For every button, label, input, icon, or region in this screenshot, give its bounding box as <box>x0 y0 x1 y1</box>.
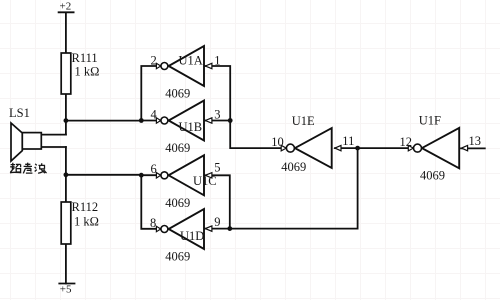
inverter U1C <box>169 155 204 195</box>
svg-text:4069: 4069 <box>165 141 190 155</box>
svg-text:13: 13 <box>469 134 482 148</box>
U1A input arrow pin1 <box>205 63 212 68</box>
junction dot U1E pin11 <box>355 146 360 151</box>
inverter U1E <box>295 128 332 168</box>
U1D output bubble pin8 <box>161 226 168 233</box>
svg-text:9: 9 <box>214 215 220 229</box>
svg-text:U1D: U1D <box>180 229 204 243</box>
node B junction dot <box>64 172 69 177</box>
wire speaker bottom terminal <box>41 146 66 148</box>
svg-text:U1B: U1B <box>179 120 203 134</box>
wire U1A pin1 to U1E pin10 <box>205 66 287 148</box>
svg-text:8: 8 <box>150 216 156 230</box>
svg-text:4069: 4069 <box>165 250 190 264</box>
U1E input arrow pin11 <box>335 145 341 150</box>
U1F output arrow <box>408 145 413 151</box>
svg-text:+5: +5 <box>60 284 72 296</box>
U1E output bubble pin10 <box>286 144 294 152</box>
svg-text:R112: R112 <box>72 200 99 214</box>
U1B output arrow <box>156 118 160 123</box>
inverter U1B <box>169 101 204 141</box>
U1C input arrow pin5 <box>205 173 212 178</box>
svg-text:2: 2 <box>151 53 157 67</box>
svg-text:+2: +2 <box>60 1 72 13</box>
U1C output arrow <box>156 173 160 178</box>
svg-text:4: 4 <box>151 108 158 122</box>
label 超声波 (ultrasonic) drawn strokes <box>10 163 47 174</box>
U1F output bubble pin12 <box>414 144 422 152</box>
resistor R112 <box>61 202 71 244</box>
svg-text:4069: 4069 <box>420 169 445 183</box>
wire U1B pin3 <box>205 120 230 122</box>
wire right vertical to U1E/U1F node <box>357 148 359 229</box>
svg-text:U1F: U1F <box>419 114 441 128</box>
svg-text:4069: 4069 <box>165 196 190 210</box>
U1A output arrow <box>156 63 160 68</box>
U1D input arrow pin9 <box>205 226 212 231</box>
power terminal +5 bar <box>59 283 74 285</box>
svg-text:12: 12 <box>400 135 413 149</box>
svg-text:U1E: U1E <box>292 114 315 128</box>
wire node A to U1B output node <box>66 120 141 122</box>
svg-text:3: 3 <box>214 108 220 122</box>
svg-text:R111: R111 <box>72 51 98 65</box>
svg-text:4069: 4069 <box>165 87 190 101</box>
U1D output arrow <box>156 226 160 231</box>
U1B input arrow pin3 <box>205 118 212 123</box>
wire +2 to R111 <box>65 13 67 53</box>
wire U1E pin11 to U1F pin12 <box>335 147 413 149</box>
wire U1F pin13 <box>461 147 485 149</box>
wire node B to U1C output node <box>66 174 141 176</box>
U1A output bubble pin2 <box>161 63 168 70</box>
junction dot U1D pin9 <box>227 226 232 231</box>
wire U1C pin6 vertical to U1D pin8 <box>141 175 160 229</box>
svg-text:10: 10 <box>271 135 284 149</box>
svg-text:11: 11 <box>342 134 354 148</box>
U1F input arrow pin13 <box>462 145 468 150</box>
svg-text:U1A: U1A <box>179 53 203 67</box>
wire U1A pin2 to vertical <box>141 66 160 121</box>
wire speaker bottom to node B to R112 <box>65 147 67 202</box>
svg-text:LS1: LS1 <box>9 106 30 120</box>
power terminal +2 bar <box>59 11 74 13</box>
U1E output arrow <box>281 145 286 151</box>
wire R112 to +5 <box>65 244 67 284</box>
inverter U1F <box>422 128 459 168</box>
svg-text:4069: 4069 <box>281 160 306 174</box>
U1B output bubble pin4 <box>161 117 168 124</box>
wire U1B pin4 stub <box>141 120 160 122</box>
svg-text:6: 6 <box>151 162 157 176</box>
inverter U1D <box>169 209 204 249</box>
speaker LS1 symbol <box>11 123 41 161</box>
wire U1D pin9 to right vertical <box>205 228 358 230</box>
svg-text:1 kΩ: 1 kΩ <box>74 214 99 228</box>
svg-text:U1C: U1C <box>193 174 217 188</box>
U1C output bubble pin6 <box>161 172 168 179</box>
wire R111 to node A to speaker top <box>65 94 67 135</box>
junction dot U1B pin3 <box>228 118 233 123</box>
junction dot U1C/U1D outputs <box>139 173 144 178</box>
node A junction dot <box>64 118 69 123</box>
svg-text:5: 5 <box>214 160 220 174</box>
inverter U1A <box>169 46 204 86</box>
wire speaker top terminal <box>41 134 66 136</box>
svg-text:1 kΩ: 1 kΩ <box>75 65 100 79</box>
wire U1C pin5 down to pin9 row <box>205 175 230 228</box>
junction dot U1A/U1B outputs <box>139 118 144 123</box>
resistor R111 <box>61 53 71 94</box>
svg-text:1: 1 <box>214 53 220 67</box>
